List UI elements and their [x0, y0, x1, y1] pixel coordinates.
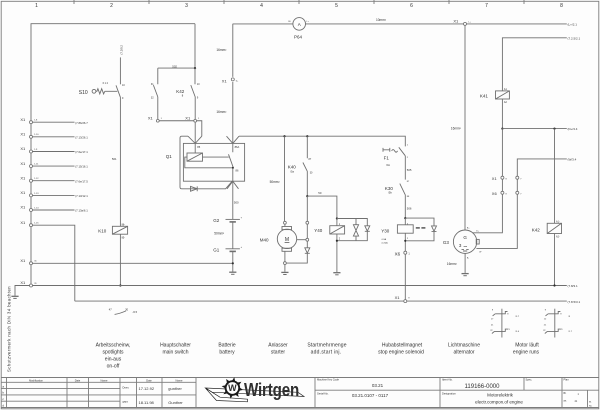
solenoid valve Y40	[314, 219, 344, 273]
svg-text:add.start inj.: add.start inj.	[311, 349, 342, 355]
svg-text:16mm²: 16mm²	[216, 48, 226, 52]
wire ref W/3.4	[568, 158, 577, 162]
svg-text:Date: Date	[75, 378, 81, 382]
svg-text:Bl.: Bl.	[589, 402, 592, 404]
wire label 10mm2	[376, 18, 386, 22]
svg-text:Startmehrmenge: Startmehrmenge	[307, 342, 346, 348]
svg-text:X1: X1	[20, 190, 26, 195]
node Y30 bottom	[404, 240, 406, 242]
svg-text:X1: X1	[395, 295, 401, 300]
terminal X1 6+	[222, 78, 239, 84]
svg-text:M: M	[285, 237, 289, 243]
svg-text:8: 8	[560, 3, 563, 9]
svg-text:1: 1	[35, 3, 38, 9]
svg-text:/2.5: /2.5	[133, 310, 138, 314]
svg-text:X6: X6	[395, 252, 401, 257]
svg-text:K40: K40	[288, 164, 297, 169]
wire row4	[33, 165, 89, 169]
wire X1 into Q1 vertex	[194, 122, 196, 153]
svg-text:Name: Name	[101, 378, 108, 382]
ident block	[442, 378, 569, 405]
ground Y40	[333, 273, 340, 275]
terminal starter 30	[306, 238, 309, 241]
svg-text:(7.8b/26.7: (7.8b/26.7	[75, 121, 88, 125]
label K42 contact	[176, 89, 185, 98]
labels Q1	[166, 145, 240, 172]
wire D+ cross link	[502, 128, 566, 130]
svg-text:K42: K42	[176, 89, 185, 94]
contact K30	[400, 181, 410, 218]
svg-text:4: 4	[260, 3, 263, 9]
wire row2	[33, 135, 89, 139]
relay Q1 battery relay outline	[180, 136, 245, 189]
contact S10 10/9	[116, 84, 125, 227]
svg-text:Arbeitsscheinw,: Arbeitsscheinw,	[96, 342, 131, 348]
svg-text:(7.6e/17.5: (7.6e/17.5	[75, 179, 88, 183]
wire 562 drop to K42 contact	[158, 24, 195, 68]
svg-text:Serial-No.: Serial-No.	[317, 392, 329, 396]
ground left chassis	[11, 286, 29, 299]
wire top rail left (30)	[31, 24, 195, 286]
svg-text:501: 501	[112, 157, 117, 161]
wire F1 to K30	[404, 156, 406, 180]
svg-text:/5a: /5a	[290, 170, 294, 174]
terminal X1 pin1 right	[185, 116, 200, 123]
svg-text:M40: M40	[260, 237, 269, 242]
relay coil K10	[98, 224, 127, 240]
svg-text:6: 6	[410, 3, 413, 9]
terminal X1 8	[492, 176, 508, 181]
svg-text:6 1 2: 6 1 2	[103, 82, 109, 85]
svg-text:X1: X1	[20, 146, 26, 151]
fuse F1	[383, 145, 409, 168]
switch S10 main switch	[79, 82, 118, 96]
node K42 branch	[553, 128, 555, 130]
wire ref 7.8.5/3.1	[568, 300, 581, 304]
svg-text:Lichtmaschine: Lichtmaschine	[448, 342, 480, 348]
wire ref D+/3.4	[568, 127, 578, 131]
svg-text:main switch: main switch	[162, 349, 188, 355]
svg-text:Plan: Plan	[564, 378, 570, 382]
machine key block	[317, 378, 389, 398]
svg-text:(7.2/9.2: (7.2/9.2	[120, 45, 124, 55]
svg-text:Batterie: Batterie	[218, 342, 235, 348]
wire Q1 coil left loop	[185, 157, 232, 168]
svg-text:86A: 86A	[235, 145, 240, 149]
wire label 500	[234, 200, 239, 204]
wire K41 to node	[501, 99, 503, 129]
wire D+ down to G3	[472, 129, 502, 233]
svg-text:X1: X1	[20, 132, 26, 137]
wire label 16mm2 upper	[216, 48, 226, 52]
svg-text:16mm²: 16mm²	[451, 126, 461, 130]
title block grid	[1, 378, 599, 408]
svg-text:5: 5	[335, 3, 338, 9]
legend function labels	[96, 342, 540, 369]
diode Q1	[191, 186, 198, 191]
solenoid Y30 stop engine	[381, 218, 413, 251]
svg-text:K30: K30	[385, 186, 394, 191]
svg-text:F1: F1	[384, 155, 390, 160]
svg-text:Wirtgen: Wirtgen	[244, 379, 299, 400]
X1 terminal rows left bus	[20, 117, 88, 227]
svg-text:Spec.: Spec.	[526, 378, 533, 382]
svg-text:506: 506	[407, 206, 412, 210]
motor M40 starter	[260, 221, 297, 271]
node K10 on rail	[119, 284, 121, 286]
svg-text:16mm²: 16mm²	[447, 262, 457, 266]
terminal X1 row9	[20, 258, 37, 265]
terminal X1 row7	[20, 205, 39, 212]
label K30	[385, 186, 394, 195]
wire row1	[33, 121, 89, 125]
svg-text:G: G	[463, 235, 467, 240]
terminal X1 row2	[20, 132, 39, 139]
svg-text:P64: P64	[294, 35, 303, 40]
svg-text:17.12.92: 17.12.92	[139, 386, 155, 391]
terminal X6 7	[516, 191, 523, 195]
terminal X1 7	[516, 176, 523, 180]
wire row5	[33, 179, 89, 183]
wire label 505	[407, 168, 412, 172]
svg-text:6A: 6A	[386, 163, 390, 167]
svg-text:Ident-No.: Ident-No.	[442, 378, 453, 382]
connector funnel Q1 bottom	[227, 181, 239, 189]
wire row7	[33, 209, 89, 213]
terminal X1 pin1 left	[148, 116, 163, 123]
wire K40 to Y40	[307, 196, 337, 218]
svg-text:Hubabstellmagnet: Hubabstellmagnet	[382, 342, 423, 348]
label K40	[288, 164, 297, 173]
terminal X1 row3	[20, 146, 38, 153]
wire Q1 86A feed from rail	[232, 24, 234, 144]
contact K42 10/9	[191, 68, 200, 119]
svg-text:502: 502	[172, 64, 177, 68]
svg-text:(W/3.4: (W/3.4	[568, 158, 577, 162]
wire G3 B+	[464, 25, 466, 230]
svg-text:X1: X1	[185, 116, 191, 121]
svg-text:Y30: Y30	[381, 228, 390, 233]
svg-text:X1: X1	[148, 116, 154, 121]
terminal X1 on lower rail	[395, 295, 411, 303]
svg-text:G3: G3	[443, 240, 450, 245]
battery G2	[213, 217, 242, 223]
wire row9 to battery minus	[33, 262, 233, 264]
svg-text:2: 2	[110, 3, 113, 9]
relay coil Q1	[187, 153, 203, 161]
svg-text:86-: 86-	[122, 224, 126, 227]
svg-text:0.9A: 0.9A	[382, 238, 387, 241]
wire label 50mm2 battery	[214, 232, 224, 236]
svg-text:Modification: Modification	[29, 378, 43, 382]
wire K42 to rail	[554, 234, 556, 286]
svg-text:X1: X1	[20, 258, 26, 263]
svg-text:A: A	[298, 22, 301, 27]
svg-text:on-off: on-off	[107, 363, 120, 369]
ground battery	[229, 272, 236, 274]
wire top rail right	[233, 23, 567, 25]
contact K40	[303, 136, 313, 196]
wire M40 right link	[297, 239, 306, 241]
wire Q1 86 down	[232, 168, 234, 220]
wire ref 7.25/2.1	[568, 36, 581, 40]
svg-text:starter: starter	[271, 349, 286, 355]
svg-text:Machine Key Code: Machine Key Code	[317, 378, 339, 382]
svg-text:spotlights: spotlights	[102, 349, 124, 355]
svg-text:(7.15/16.1: (7.15/16.1	[75, 165, 88, 169]
contact mirror K41	[490, 309, 520, 338]
ground M40	[281, 272, 288, 274]
drawn/checked block	[123, 386, 184, 405]
wire 86A bus to F1	[239, 136, 405, 146]
svg-text:X1: X1	[20, 280, 26, 285]
terminal X1 row10	[20, 280, 37, 287]
wire X1 jog into Q1	[197, 121, 202, 136]
title block header labels	[29, 378, 183, 382]
wire terminal to motor node	[306, 224, 308, 238]
svg-text:K42: K42	[532, 228, 541, 233]
svg-text:alternator: alternator	[453, 349, 474, 355]
svg-text:Kb.: Kb.	[589, 406, 593, 408]
wire G2 to G1	[232, 222, 234, 249]
node Y40 top	[336, 217, 338, 219]
wire X6 to lower rail	[404, 254, 406, 299]
svg-text:X1: X1	[20, 175, 26, 180]
wire row8 drop to lower rail	[33, 225, 75, 301]
Wirtgen logo	[206, 377, 305, 402]
svg-text:Hauptschalter: Hauptschalter	[160, 342, 191, 348]
contact cross-ref K7 under rail	[109, 308, 138, 315]
svg-text:X1: X1	[453, 18, 459, 23]
column numbers	[35, 3, 563, 9]
svg-text:X1: X1	[20, 220, 26, 225]
wire label 50mm2 starter	[270, 180, 280, 184]
svg-text:electr.compon.of engine: electr.compon.of engine	[475, 399, 523, 404]
svg-text:18.11.98: 18.11.98	[139, 400, 155, 405]
svg-text:battery: battery	[219, 349, 235, 355]
wire lower rail 31.5	[75, 300, 567, 302]
svg-text:50mm²: 50mm²	[214, 232, 224, 236]
node K40 feed	[306, 135, 308, 137]
svg-text:stop engine solenoid: stop engine solenoid	[378, 349, 424, 355]
svg-text:505: 505	[407, 168, 412, 172]
svg-text:Motorelektrik: Motorelektrik	[487, 393, 514, 398]
svg-text:(7.8/3.1: (7.8/3.1	[568, 284, 579, 288]
wire G3 B- ground	[464, 253, 466, 273]
contact K42 31/32	[151, 68, 158, 119]
alternator G3	[443, 227, 482, 259]
svg-text:Y40: Y40	[314, 228, 323, 233]
revision row letters	[2, 384, 4, 407]
svg-text:engine runs: engine runs	[513, 349, 540, 355]
svg-text:X1: X1	[20, 117, 26, 122]
terminal X1 L+	[453, 18, 471, 25]
node K41 D+	[501, 128, 503, 130]
svg-text:Gunther: Gunther	[168, 400, 183, 405]
terminal X1 row8	[20, 220, 39, 227]
svg-text:K10: K10	[98, 228, 107, 233]
wire label 502	[172, 64, 177, 68]
svg-text:03.21.0107 - 0117: 03.21.0107 - 0117	[352, 393, 389, 398]
node M40 feed	[283, 135, 285, 137]
relay coil K41	[480, 88, 510, 104]
connector funnel Q1 right	[227, 136, 240, 143]
svg-text:K41: K41	[480, 93, 489, 98]
connector funnel Q1 left	[188, 136, 202, 143]
svg-text:(D+/3.4: (D+/3.4	[568, 127, 578, 131]
svg-text:7: 7	[485, 3, 488, 9]
svg-text:gunther: gunther	[168, 386, 182, 391]
terminal X1 row6	[20, 190, 39, 197]
svg-text:119166-0000: 119166-0000	[465, 384, 501, 390]
svg-text:B-: B-	[467, 257, 469, 259]
wire label 16mm2 B-	[447, 262, 457, 266]
svg-text:W: W	[228, 383, 237, 393]
node battery minus	[232, 262, 234, 264]
svg-text:50mm²: 50mm²	[270, 180, 280, 184]
svg-text:3: 3	[185, 3, 188, 9]
terminal X6	[395, 251, 411, 256]
wire label 501	[112, 157, 117, 161]
wire ground rail 31	[33, 285, 567, 287]
ground G3	[462, 274, 469, 276]
svg-text:Q1: Q1	[166, 154, 173, 159]
wire row3	[33, 150, 89, 154]
svg-text:Schutzvermerk nach DIN 34 beac: Schutzvermerk nach DIN 34 beachten	[6, 286, 11, 372]
node starter solenoid branch	[306, 195, 308, 197]
node Y40 bottom	[336, 240, 338, 242]
svg-text:Name: Name	[176, 378, 183, 382]
svg-text:Anlasser: Anlasser	[268, 342, 288, 348]
ammeter P64	[288, 18, 310, 40]
svg-text:10mm²: 10mm²	[376, 18, 386, 22]
node junction 562	[194, 67, 196, 69]
svg-text:an.: an.	[564, 400, 568, 403]
column ticks	[74, 0, 524, 4]
relay coil K42	[532, 221, 562, 239]
svg-text:X1: X1	[492, 176, 498, 181]
terminal starter 50	[306, 221, 309, 224]
svg-text:gepr.: gepr.	[123, 400, 129, 404]
terminal X1 row5	[20, 175, 39, 182]
svg-text:(7.13a/6.1: (7.13a/6.1	[75, 209, 88, 213]
svg-text:Motor läuft: Motor läuft	[515, 342, 539, 348]
svg-text:(7.13/12.1: (7.13/12.1	[75, 194, 88, 198]
svg-text:85-: 85-	[122, 236, 126, 239]
svg-text:Designation: Designation	[442, 392, 456, 396]
wire K41 feed 7.25	[502, 38, 566, 91]
wire ref 7.8/3.1	[568, 284, 579, 288]
contact Q1	[229, 143, 234, 167]
wire K42 coil drop	[554, 129, 556, 224]
wire label 508	[318, 191, 322, 195]
wire K10 to ground rail	[119, 234, 121, 285]
suppressor Y30	[405, 218, 436, 241]
svg-text:A1-: A1-	[556, 221, 560, 224]
svg-text:50: 50	[318, 191, 322, 195]
wire label 16mm2 lower	[216, 110, 226, 114]
svg-text:Drwn.: Drwn.	[123, 386, 130, 390]
suppressor Y40	[337, 219, 370, 241]
svg-text:16mm²: 16mm²	[216, 110, 226, 114]
svg-text:X1: X1	[20, 161, 26, 166]
svg-text:Bl.: Bl.	[564, 392, 567, 395]
node Y30 top	[404, 217, 406, 219]
svg-text:G2: G2	[213, 218, 220, 223]
svg-text:ein-aus: ein-aus	[105, 356, 122, 362]
svg-text:(7.6e/17.1: (7.6e/17.1	[75, 150, 88, 154]
plan sheet block	[564, 392, 593, 407]
wire M40 feed	[284, 136, 286, 221]
wire W from G3	[476, 159, 566, 249]
wire G1 to node	[232, 251, 234, 271]
svg-text:A2-: A2-	[556, 236, 560, 239]
contact mirror K42	[543, 309, 573, 338]
node K42 on rail	[553, 284, 555, 286]
wire X1 to X1 link	[159, 120, 194, 122]
svg-text:(7.8.5/3.1: (7.8.5/3.1	[568, 300, 581, 304]
svg-text:03.21: 03.21	[372, 383, 384, 388]
svg-text:500: 500	[234, 200, 239, 204]
wire ref L+/2.1	[568, 22, 578, 26]
wire label 16mm2 G3	[451, 126, 461, 130]
terminal X6 8	[492, 191, 508, 196]
battery G1	[213, 246, 242, 253]
wire label 506	[407, 206, 412, 210]
svg-text:(7.13/26.1: (7.13/26.1	[75, 135, 88, 139]
svg-text:(7.2.5/2.1: (7.2.5/2.1	[568, 36, 581, 40]
svg-text:X1: X1	[20, 205, 26, 210]
node Q1 86	[232, 167, 234, 169]
svg-text:Date: Date	[146, 378, 152, 382]
svg-text:(L+/2.1: (L+/2.1	[568, 22, 578, 26]
svg-text:S10: S10	[79, 90, 88, 96]
wire Q1 coil to contact	[203, 156, 229, 158]
wire row6	[33, 194, 89, 198]
terminal X1 row4	[20, 161, 39, 168]
wire S10 ref drop 7.2/9.2	[120, 45, 124, 85]
svg-text:X6: X6	[492, 191, 498, 196]
diode starter	[286, 241, 310, 263]
wire solenoid 50	[306, 196, 308, 221]
terminal X1 row1	[20, 117, 38, 124]
svg-text:G1: G1	[213, 248, 220, 253]
svg-text:X1: X1	[222, 79, 228, 84]
left margin vertical note	[6, 286, 11, 372]
svg-text:/5b: /5b	[388, 191, 392, 195]
svg-text:(1.5A): (1.5A)	[382, 242, 388, 245]
